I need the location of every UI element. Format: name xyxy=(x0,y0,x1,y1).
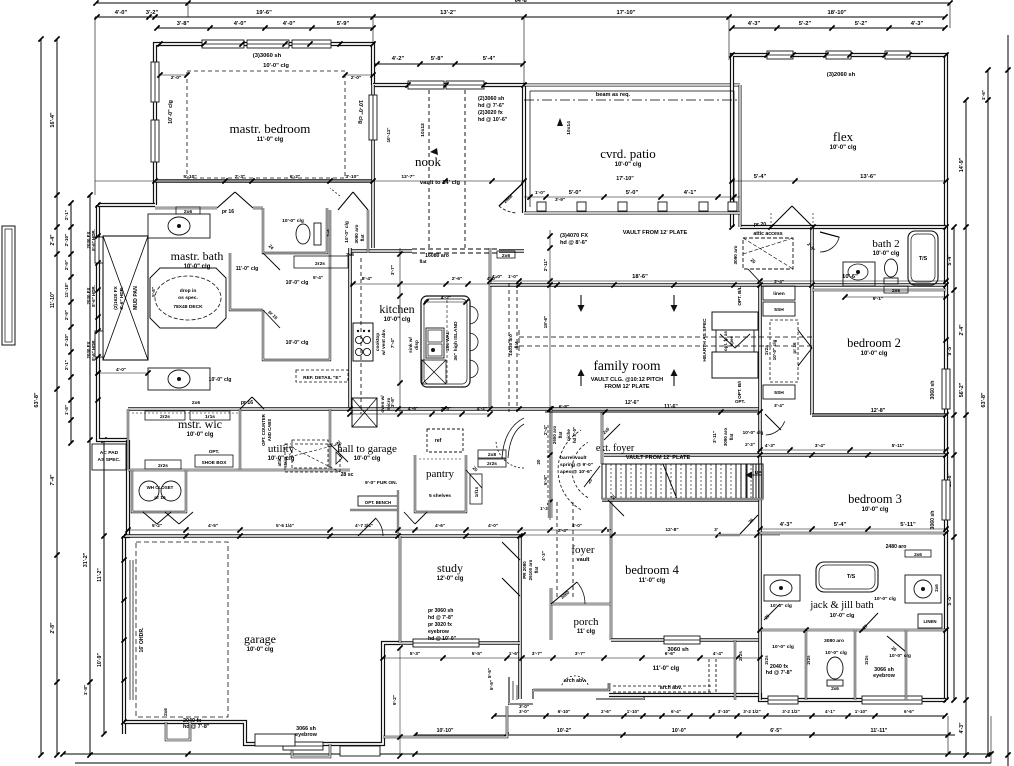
oven micro box xyxy=(352,398,377,427)
porch steps south xyxy=(596,692,644,699)
svg-text:5'-10": 5'-10" xyxy=(183,174,196,180)
svg-text:3060 sh: 3060 sh xyxy=(930,381,936,400)
ticks on garage top wall xyxy=(121,533,126,538)
svg-text:hall to garage: hall to garage xyxy=(337,443,397,455)
wall jack&jill top xyxy=(760,532,946,535)
mastr suite hall xyxy=(367,210,369,253)
bedroom4 NE closet door xyxy=(740,515,758,534)
svg-text:14'-9": 14'-9" xyxy=(959,157,965,172)
svg-text:attic: attic xyxy=(277,457,282,466)
svg-text:FROM 12' PLATE: FROM 12' PLATE xyxy=(604,384,649,390)
svg-text:63'-8": 63'-8" xyxy=(981,392,987,408)
wic walls bottom right xyxy=(805,630,807,700)
svg-text:4'-2": 4'-2" xyxy=(477,406,488,412)
island dishwasher hatch xyxy=(422,360,446,384)
window bedroom2 3060 right wall xyxy=(942,369,950,409)
svg-text:1'-6": 1'-6" xyxy=(981,90,987,101)
svg-text:2x8: 2x8 xyxy=(488,452,496,458)
svg-text:3060 sh: 3060 sh xyxy=(930,511,936,530)
svg-text:OPT.: OPT. xyxy=(209,449,219,454)
foyer closet stub xyxy=(548,500,550,518)
svg-text:sink w/: sink w/ xyxy=(408,336,413,352)
hall dim line xyxy=(128,529,604,531)
dimension line right mid xyxy=(965,100,967,755)
svg-text:78X48 DECK: 78X48 DECK xyxy=(173,304,203,310)
svg-text:10'-0" clg: 10'-0" clg xyxy=(861,351,888,357)
svg-text:10'-0" clg: 10'-0" clg xyxy=(282,218,304,224)
svg-text:10'-0" clg: 10'-0" clg xyxy=(187,432,214,438)
mastr bath garden tub xyxy=(150,268,226,328)
svg-text:1'-8": 1'-8" xyxy=(64,405,69,415)
svg-text:17'-10": 17'-10" xyxy=(616,176,634,182)
utility walls xyxy=(239,409,241,470)
svg-text:disp: disp xyxy=(414,340,419,350)
svg-text:11'-0" clg: 11'-0" clg xyxy=(639,578,666,584)
stair side door xyxy=(604,424,620,440)
svg-text:5'-4": 5'-4" xyxy=(834,522,847,528)
bedroom3 bottom dim xyxy=(760,528,946,530)
svg-text:2r2s: 2r2s xyxy=(806,655,811,665)
svg-text:4'-1": 4'-1" xyxy=(684,190,697,196)
stairs bottom wall xyxy=(602,498,763,500)
dimension line left tier3 stack xyxy=(70,203,72,443)
svg-text:3'-10": 3'-10" xyxy=(718,709,730,714)
svg-text:ref: ref xyxy=(435,438,442,444)
svg-text:2x6: 2x6 xyxy=(892,288,900,294)
wic double doors xyxy=(240,397,252,409)
svg-text:2x6: 2x6 xyxy=(163,708,168,716)
ticks on bedroom3 walls xyxy=(757,452,762,457)
dimension line top tier2 xyxy=(95,16,945,18)
jack jill vanity left xyxy=(764,575,800,601)
flex bottom dim xyxy=(732,180,946,182)
2x8 2r2s labels xyxy=(478,450,506,458)
stairs hatch xyxy=(602,464,763,499)
svg-text:2'-6": 2'-6" xyxy=(452,276,463,282)
bath small dim 4-0 xyxy=(98,372,148,374)
svg-text:2r2a: 2r2a xyxy=(764,345,769,355)
svg-text:10'-0" clg: 10'-0" clg xyxy=(286,280,309,286)
svg-text:2r2s: 2r2s xyxy=(764,655,769,665)
svg-text:flat: flat xyxy=(514,341,519,348)
svg-text:1'-8": 1'-8" xyxy=(83,685,89,696)
svg-text:10'-0" clg: 10'-0" clg xyxy=(354,456,381,462)
svg-text:bedroom 2: bedroom 2 xyxy=(847,336,901,350)
svg-text:19'-6": 19'-6" xyxy=(256,10,272,16)
svg-text:5'-11": 5'-11" xyxy=(900,522,916,528)
svg-text:1r1s: 1r1s xyxy=(205,414,215,420)
patio bottom posts xyxy=(537,202,546,211)
svg-text:arch abv.: arch abv. xyxy=(660,685,683,691)
svg-text:2r2s: 2r2s xyxy=(158,463,168,469)
svg-text:5SH: 5SH xyxy=(774,390,784,396)
svg-text:LINEN: LINEN xyxy=(923,619,936,624)
svg-text:6'-10": 6'-10" xyxy=(558,709,570,714)
family room top dim xyxy=(490,280,946,282)
window master bedroom west wall xyxy=(151,62,159,102)
svg-text:7'-4": 7'-4" xyxy=(50,474,56,486)
svg-text:4'-0": 4'-0" xyxy=(488,523,498,528)
svg-text:2'-4": 2'-4" xyxy=(959,324,965,336)
svg-text:opt. fp as: opt. fp as xyxy=(723,331,728,351)
svg-text:utility: utility xyxy=(268,443,295,455)
svg-text:11'-6": 11'-6" xyxy=(664,404,678,410)
utility dryer dashed xyxy=(292,440,328,468)
wall bedroom4 right / bedroom3 left xyxy=(758,409,762,700)
svg-text:8'-4": 8'-4" xyxy=(362,276,373,282)
wall foyer left xyxy=(550,409,553,518)
svg-text:5'-4": 5'-4" xyxy=(754,174,767,180)
dimension line bottom tier2 xyxy=(415,734,955,736)
svg-text:3'-8": 3'-8" xyxy=(177,21,190,27)
bath2 labels xyxy=(884,286,908,293)
svg-text:3'-0": 3'-0" xyxy=(519,709,529,714)
svg-text:family room: family room xyxy=(593,358,661,373)
svg-text:11'-2": 11'-2" xyxy=(97,568,103,582)
svg-text:3'-7": 3'-7" xyxy=(532,651,542,657)
svg-text:10'-0" clg: 10'-0" clg xyxy=(770,603,792,609)
svg-text:6'-4": 6'-4" xyxy=(671,709,681,714)
pantry walls xyxy=(415,455,466,512)
ticks on family top wall xyxy=(516,282,521,287)
ticks master bath west wall xyxy=(95,202,100,207)
svg-text:flat: flat xyxy=(534,566,539,573)
wall patio right xyxy=(739,85,742,227)
svg-text:hd @ 7'-6": hd @ 7'-6" xyxy=(478,103,505,109)
svg-text:4'-6": 4'-6" xyxy=(408,406,419,412)
foyer niche dashed xyxy=(547,425,549,500)
svg-text:3': 3' xyxy=(714,527,718,532)
hall20 door xyxy=(748,269,762,284)
window study front xyxy=(413,639,479,647)
svg-text:stairs: stairs xyxy=(283,456,288,468)
svg-text:arch abv.: arch abv. xyxy=(564,678,587,684)
svg-text:jack & jill bath: jack & jill bath xyxy=(809,600,874,611)
wall family/hall bottom xyxy=(128,407,760,411)
bath2 tub xyxy=(908,231,938,285)
svg-text:11'-10": 11'-10" xyxy=(64,282,69,297)
svg-text:12'-6": 12'-6" xyxy=(625,400,640,406)
svg-text:18'-10": 18'-10" xyxy=(827,10,846,16)
nook patio door 2868 xyxy=(499,183,523,206)
svg-text:5'-5": 5'-5" xyxy=(489,680,494,690)
svg-text:2'-4": 2'-4" xyxy=(558,528,568,533)
mastr bath vanity south xyxy=(148,368,210,390)
svg-text:eyebrow: eyebrow xyxy=(428,629,450,635)
svg-text:3090 aro: 3090 aro xyxy=(354,224,359,243)
svg-text:10'-0" clg: 10'-0" clg xyxy=(825,650,847,656)
fur dn closet xyxy=(397,490,399,536)
svg-text:VAULT FROM 12' PLATE: VAULT FROM 12' PLATE xyxy=(626,455,691,461)
garage hall door xyxy=(358,518,376,536)
svg-text:3090 aro: 3090 aro xyxy=(733,245,738,264)
svg-text:1'-10": 1'-10" xyxy=(855,709,867,714)
porch bottom steps xyxy=(533,683,609,699)
family vertical dim line xyxy=(549,230,551,520)
svg-text:5'-3": 5'-3" xyxy=(410,651,420,657)
svg-text:2x6: 2x6 xyxy=(192,400,200,406)
ext foyer top wall xyxy=(601,412,604,464)
svg-text:2'-0": 2'-0" xyxy=(351,75,362,81)
svg-text:10'-0" clg: 10'-0" clg xyxy=(209,377,232,383)
svg-text:pr 16: pr 16 xyxy=(241,400,253,406)
svg-text:hd @ 7'-8": hd @ 7'-8" xyxy=(183,724,210,730)
svg-text:10'-0" clg: 10'-0" clg xyxy=(344,221,350,243)
kitchen top dim xyxy=(350,283,490,285)
bottom extension lines xyxy=(990,716,992,763)
svg-text:10'-0" clg: 10'-0" clg xyxy=(743,430,764,435)
svg-text:4'-1": 4'-1" xyxy=(825,709,835,714)
svg-text:os spec.: os spec. xyxy=(178,296,198,301)
wall section detail far left xyxy=(2,226,15,345)
attic access xyxy=(743,238,793,269)
svg-text:10'-0" clg: 10'-0" clg xyxy=(286,340,309,346)
svg-text:1r/1s: 1r/1s xyxy=(474,486,479,497)
svg-text:3'-2 1/2": 3'-2 1/2" xyxy=(743,709,761,714)
wh closet xyxy=(132,470,186,512)
svg-text:linen: linen xyxy=(773,291,784,297)
svg-text:hd @ 8'-6": hd @ 8'-6" xyxy=(560,240,588,246)
svg-text:6'-2": 6'-2" xyxy=(290,174,301,180)
mastr bath dim line xyxy=(95,180,524,182)
svg-text:16' OHDR.: 16' OHDR. xyxy=(139,627,145,653)
svg-text:5'-5": 5'-5" xyxy=(472,651,482,657)
svg-text:2'-9": 2'-9" xyxy=(64,260,69,270)
svg-text:hd @ 7'-8": hd @ 7'-8" xyxy=(766,670,793,676)
svg-text:10'-0" clg: 10'-0" clg xyxy=(830,145,857,151)
svg-text:5'-4": 5'-4" xyxy=(313,275,323,280)
mastr bedroom ceiling dashed box xyxy=(187,71,345,178)
svg-text:3'-9": 3'-9" xyxy=(555,197,565,202)
svg-text:4'-0": 4'-0" xyxy=(234,21,247,27)
svg-text:garage: garage xyxy=(244,632,276,646)
mastr bath north wall xyxy=(155,207,217,210)
svg-text:2'-9": 2'-9" xyxy=(64,310,69,320)
exterior wall master suite top xyxy=(155,44,373,205)
dimension line right inner xyxy=(953,227,955,700)
svg-text:5'-6 1/4": 5'-6 1/4" xyxy=(276,523,294,528)
svg-text:10x14: 10x14 xyxy=(566,121,572,135)
svg-text:2'-6": 2'-6" xyxy=(601,709,611,714)
wall kitchen/family vertical center xyxy=(489,248,492,409)
svg-text:5'-4": 5'-4" xyxy=(483,56,496,62)
svg-text:2'-0": 2'-0" xyxy=(171,75,182,81)
patio bottom dim xyxy=(524,196,740,198)
svg-text:5'-0": 5'-0" xyxy=(569,190,582,196)
svg-text:11'-10": 11'-10" xyxy=(50,291,56,308)
svg-text:6'-5": 6'-5" xyxy=(770,728,782,734)
mastr bath wc xyxy=(263,208,327,253)
svg-text:11'-0" clg: 11'-0" clg xyxy=(236,266,259,272)
svg-text:4'-0": 4'-0" xyxy=(115,10,128,16)
kitchen family dashed opening xyxy=(508,283,510,412)
svg-text:spring @ 9'-0": spring @ 9'-0" xyxy=(560,462,593,468)
patio beam dash-dot xyxy=(524,99,740,101)
svg-text:hd 8'-0": hd 8'-0" xyxy=(572,427,577,443)
svg-text:cvrd. patio: cvrd. patio xyxy=(600,146,656,161)
svg-text:1'-0": 1'-0" xyxy=(508,274,518,279)
bath2 toilet xyxy=(885,259,898,277)
left wall window north xyxy=(95,237,103,263)
svg-text:kitchen: kitchen xyxy=(379,302,414,316)
utility door xyxy=(330,444,348,462)
svg-text:10'-0" clg: 10'-0" clg xyxy=(830,613,855,619)
svg-text:w/ vent abv.: w/ vent abv. xyxy=(381,329,386,356)
svg-text:attic access: attic access xyxy=(753,231,782,237)
svg-text:2r2s: 2r2s xyxy=(315,261,325,267)
wall study left xyxy=(399,536,402,643)
svg-text:pr 3060 sh: pr 3060 sh xyxy=(428,608,453,614)
svg-text:spec: spec xyxy=(729,335,734,346)
svg-text:mastr. bedroom: mastr. bedroom xyxy=(230,121,311,136)
hall double doors to nook xyxy=(338,192,353,210)
svg-text:2r2s: 2r2s xyxy=(487,461,497,467)
svg-text:eyebrow: eyebrow xyxy=(873,673,896,679)
exterior wall study terrace xyxy=(383,706,507,737)
svg-text:5'-2": 5'-2" xyxy=(799,21,812,27)
svg-text:13'-7": 13'-7" xyxy=(401,174,414,180)
svg-text:(2)1620 FX: (2)1620 FX xyxy=(113,285,118,309)
svg-text:4'-3": 4'-3" xyxy=(541,551,546,561)
bath2 door xyxy=(820,232,839,237)
svg-text:4'-0": 4'-0" xyxy=(492,274,503,280)
svg-text:10'-11": 10'-11" xyxy=(386,127,391,142)
kitchen bottom dim xyxy=(350,413,490,415)
dimension line top tier3 master windows xyxy=(157,27,373,29)
kitchen hall arc xyxy=(496,440,524,468)
svg-text:SHOE BOX: SHOE BOX xyxy=(202,460,228,465)
island stool circles xyxy=(470,306,478,324)
kitchen vertical dim line xyxy=(399,248,401,414)
svg-text:2'-3": 2'-3" xyxy=(745,442,755,447)
svg-text:oven w/: oven w/ xyxy=(380,395,385,413)
svg-text:1'-6": 1'-6" xyxy=(509,651,519,657)
svg-text:3'-4": 3'-4" xyxy=(774,279,784,284)
attic stairs dashed xyxy=(285,444,340,472)
wall foyer right / stairs left xyxy=(610,500,613,640)
svg-text:hd @ 7'-8": hd @ 7'-8" xyxy=(428,615,454,621)
svg-text:pr 16: pr 16 xyxy=(222,209,234,215)
svg-text:6'-8": 6'-8" xyxy=(559,404,570,410)
svg-text:11'-11": 11'-11" xyxy=(871,728,888,734)
svg-text:5'-8": 5'-8" xyxy=(543,475,548,485)
svg-text:4'-5": 4'-5" xyxy=(208,523,218,528)
svg-text:VAULT CLG. @10:12 PITCH: VAULT CLG. @10:12 PITCH xyxy=(591,377,663,383)
svg-text:beam as req.: beam as req. xyxy=(596,92,631,98)
svg-text:6'-6": 6'-6" xyxy=(665,651,675,657)
svg-text:OPT. COUNTER: OPT. COUNTER xyxy=(261,414,266,446)
svg-text:flex: flex xyxy=(833,129,854,144)
svg-text:10'-0" clg: 10'-0" clg xyxy=(384,317,411,323)
svg-text:4'-3": 4'-3" xyxy=(911,21,924,27)
svg-text:porch: porch xyxy=(573,616,599,628)
svg-text:12'-8": 12'-8" xyxy=(871,408,886,414)
svg-text:pr 16: pr 16 xyxy=(792,342,797,354)
nook vault dashed lines xyxy=(428,90,430,251)
svg-text:16080 aro: 16080 aro xyxy=(425,253,449,259)
porch right dashed cols xyxy=(708,659,710,694)
wall nook bottom / kitchen top xyxy=(350,249,412,253)
svg-text:2'-10": 2'-10" xyxy=(64,234,69,247)
bedroom3 door xyxy=(765,414,781,430)
svg-text:flat: flat xyxy=(729,433,734,440)
svg-text:4'-3": 4'-3" xyxy=(780,522,793,528)
wall kitchen left vertical xyxy=(348,248,352,409)
exterior wall nook top xyxy=(373,85,524,213)
window nook (2)3060 xyxy=(408,81,444,89)
svg-text:2x6: 2x6 xyxy=(831,686,839,691)
svg-text:hd @ 10'-6": hd @ 10'-6" xyxy=(478,117,508,123)
window master bedroom (3)3060 xyxy=(202,40,244,48)
svg-text:mastr. bath: mastr. bath xyxy=(171,249,224,263)
family room dashed vault lines xyxy=(519,336,812,338)
svg-text:4'-2": 4'-2" xyxy=(441,295,452,301)
svg-text:16'-4": 16'-4" xyxy=(50,112,56,128)
svg-text:5'-2": 5'-2" xyxy=(152,523,162,528)
svg-text:2r2s: 2r2s xyxy=(864,655,869,665)
svg-text:13'-6": 13'-6" xyxy=(860,174,876,180)
svg-text:3'-11": 3'-11" xyxy=(712,431,717,443)
ext foyer barrel vault xyxy=(558,430,581,510)
dimension line left lower xyxy=(89,195,91,755)
wall jack&jill bottom closets xyxy=(760,629,946,632)
svg-text:2x6: 2x6 xyxy=(346,252,354,257)
svg-text:HEARTH AS SPEC: HEARTH AS SPEC xyxy=(702,318,708,362)
svg-text:(3)3060 sh: (3)3060 sh xyxy=(253,53,282,59)
bath2 vanity xyxy=(843,262,875,286)
kitchen counter dashed edge xyxy=(360,258,362,414)
wall left utility jog xyxy=(124,440,128,536)
svg-text:5'-5": 5'-5" xyxy=(487,668,492,678)
svg-text:pantry: pantry xyxy=(426,468,455,480)
dimension line right outer xyxy=(987,70,989,755)
window bedroom3 3060 right wall xyxy=(942,480,950,520)
linen box xyxy=(918,614,942,628)
svg-text:8'-6" HDR.: 8'-6" HDR. xyxy=(91,285,96,307)
svg-text:20: 20 xyxy=(536,459,541,464)
exterior wall garage bottom xyxy=(124,643,400,744)
dimension line top tier3 flex windows xyxy=(732,27,945,29)
svg-text:pr 16: pr 16 xyxy=(154,495,166,500)
window flex (3)2060 xyxy=(767,51,793,59)
svg-text:4'-3": 4'-3" xyxy=(959,722,965,734)
pantry door xyxy=(466,470,482,488)
dimension line right outermost xyxy=(1007,35,1009,766)
svg-text:MUD PAN: MUD PAN xyxy=(133,286,139,310)
ticks on hall south wall xyxy=(347,406,352,411)
garage bottom window bump 2 xyxy=(292,744,330,757)
wall bedroom2 bottom xyxy=(812,413,946,417)
svg-text:niche: niche xyxy=(566,429,571,441)
svg-text:8": 8" xyxy=(607,528,612,533)
svg-text:2r2s: 2r2s xyxy=(160,414,170,420)
svg-text:4'-3": 4'-3" xyxy=(765,443,775,449)
hearth xyxy=(712,312,758,330)
svg-text:3'-4": 3'-4" xyxy=(815,443,825,449)
svg-text:barrel vault: barrel vault xyxy=(560,455,587,461)
svg-text:2'-3": 2'-3" xyxy=(235,174,246,180)
svg-text:5SH: 5SH xyxy=(774,307,784,313)
svg-text:11'-0" clg: 11'-0" clg xyxy=(257,137,284,143)
garage bottom window bump xyxy=(166,722,190,740)
svg-text:10'-0" clg: 10'-0" clg xyxy=(615,162,642,168)
wall study bottom xyxy=(400,641,520,645)
stairs door xyxy=(584,466,600,487)
svg-text:28 sc: 28 sc xyxy=(341,472,354,478)
mastr bath linen 2r2s xyxy=(294,256,348,268)
svg-text:4'-4": 4'-4" xyxy=(713,651,723,657)
svg-text:26100 aro: 26100 aro xyxy=(528,559,533,580)
